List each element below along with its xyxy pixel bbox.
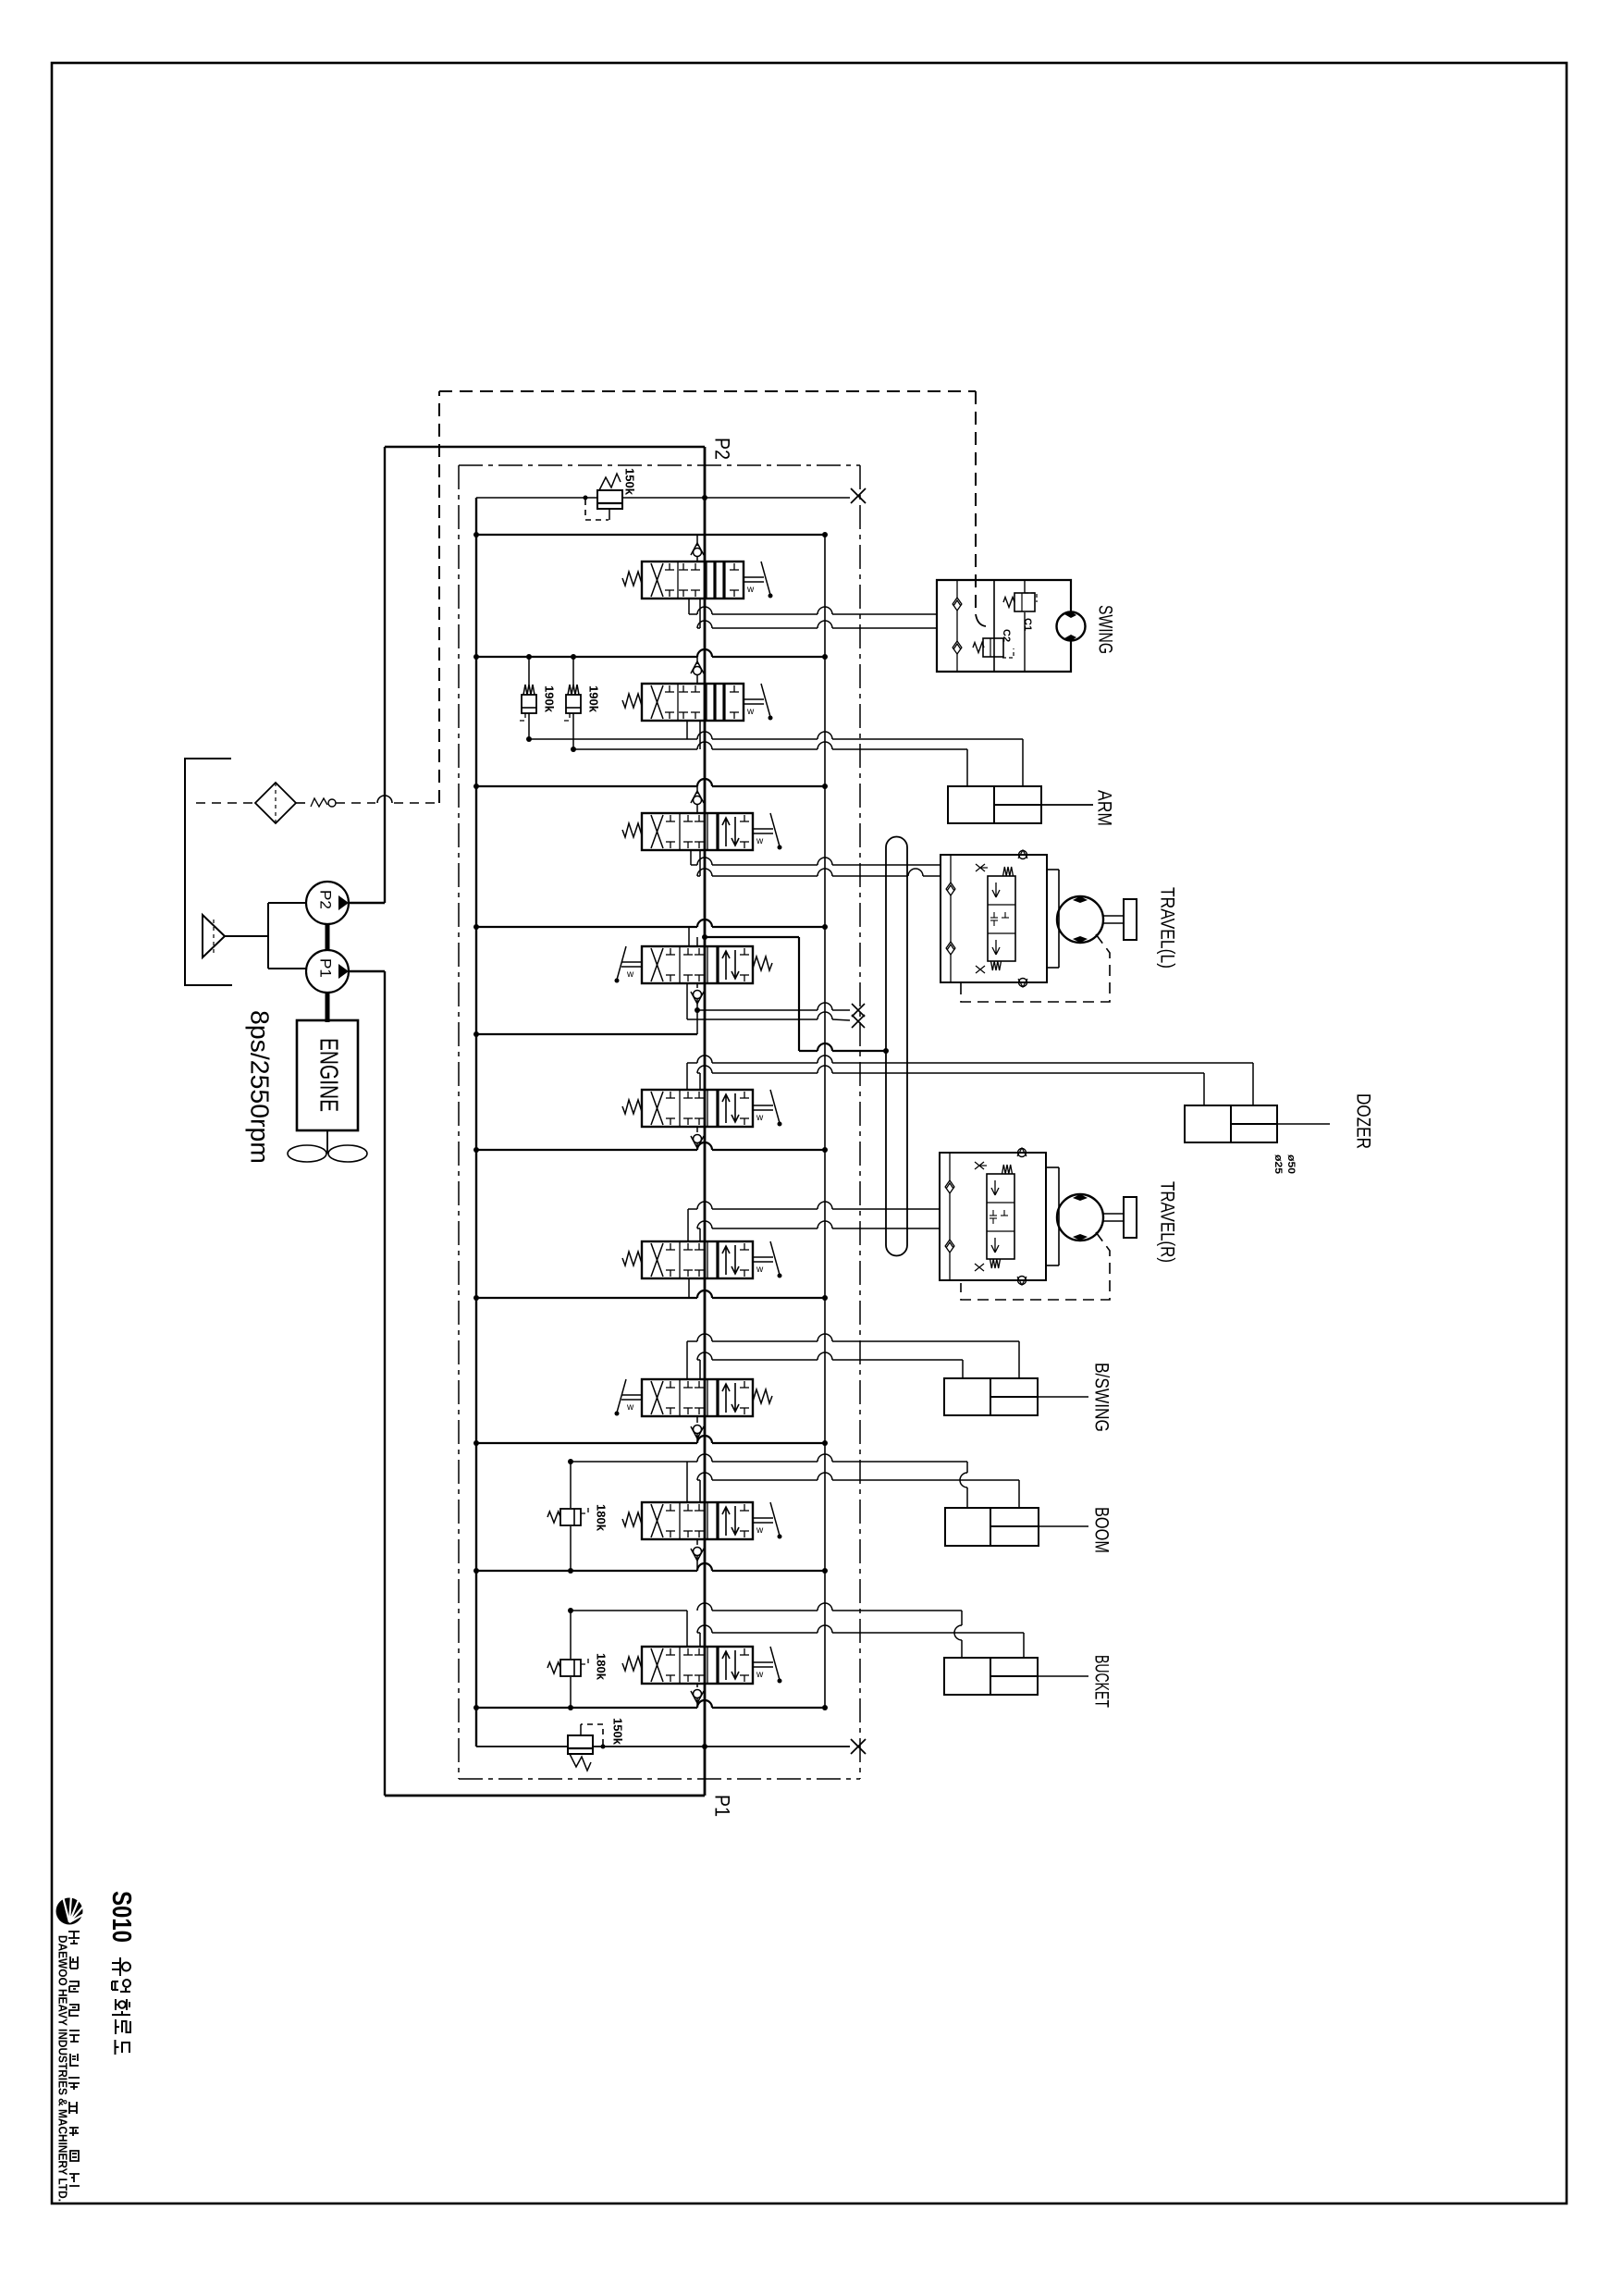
- spool valve V2 arm section: [622, 684, 773, 721]
- svg-text:TRAVEL(R): TRAVEL(R): [1157, 1181, 1178, 1263]
- wire valve8 work port A to boom cylinder: [571, 1454, 967, 1502]
- boom swing cylinder: [944, 1378, 1088, 1415]
- bypass check with spring on drain line: [311, 798, 336, 807]
- spool valve V1 swing section: [622, 562, 773, 599]
- wire valve7 work port B to bswing cylinder: [697, 1352, 963, 1379]
- wire feeder line valve 5: [473, 1142, 828, 1153]
- pump drive shaft: [326, 924, 330, 950]
- svg-text:SWING: SWING: [1095, 605, 1116, 654]
- tank enclosure bracket: [185, 759, 232, 985]
- svg-text:180k: 180k: [595, 1504, 609, 1532]
- travel right drain dashed: [961, 1232, 1110, 1300]
- engine fan shaft: [326, 1130, 328, 1154]
- wire valve1 work port B to swing motor: [697, 599, 937, 628]
- check valve below valve 4: [691, 983, 704, 1010]
- check valve below valve 5: [691, 1127, 704, 1150]
- dozer cylinder: [1185, 1105, 1330, 1142]
- svg-text:BUCKET: BUCKET: [1091, 1655, 1113, 1708]
- plugged port X lower relief line: [851, 1739, 866, 1754]
- svg-text:P2: P2: [711, 438, 734, 460]
- svg-text:P1: P1: [317, 958, 335, 978]
- port relief 190k A valve2: [517, 654, 536, 742]
- swing motor unit housing: [937, 580, 1071, 614]
- port relief 180k boom: [547, 1459, 588, 1574]
- plugged port X valve4 A: [852, 1004, 865, 1017]
- plugged port X valve4 B: [852, 1015, 865, 1028]
- wire suction line to pumps: [225, 903, 306, 969]
- svg-text:DAEWOO HEAVY INDUSTRIES & MACH: DAEWOO HEAVY INDUSTRIES & MACHINERY LTD.: [56, 1935, 70, 2202]
- pilot dashed entry hook into swing unit: [976, 614, 986, 626]
- bucket cylinder: [944, 1658, 1088, 1695]
- wire feeder line valve 4: [473, 920, 828, 930]
- valve bank boundary chain line top edge: [459, 464, 860, 466]
- wire valve8 work port B to boom cylinder: [697, 1473, 1019, 1508]
- wire valve6 work port A to travel-right unit: [688, 1202, 940, 1241]
- svg-text:ø50: ø50: [1285, 1154, 1297, 1174]
- return filter: [255, 783, 296, 823]
- spool valve V5 dozer section: [622, 1090, 782, 1127]
- check valve inlet valve 1: [691, 535, 704, 562]
- wire valve3 work port B to travel-left unit: [697, 850, 941, 876]
- suction strainer funnel: [203, 915, 225, 957]
- wire P2 branch to straight travel loop: [702, 934, 889, 1054]
- swing relief C2: [973, 638, 1014, 658]
- spool valve V8 boom section: [622, 1502, 782, 1539]
- svg-text:190k: 190k: [587, 685, 601, 713]
- travel left drain dashed: [961, 934, 1110, 1002]
- engine shaft: [326, 993, 330, 1022]
- wire feeder line valve 1: [473, 532, 828, 537]
- wire valve6 inlet stub: [688, 1278, 690, 1298]
- label bore rod size: [1273, 1154, 1297, 1174]
- svg-text:P1: P1: [711, 1795, 734, 1817]
- spool valve V3 travel-left section: [622, 813, 782, 850]
- wire valve9 work port A to bucket cylinder: [571, 1603, 962, 1658]
- svg-text:DOZER: DOZER: [1353, 1093, 1374, 1149]
- wire auxiliary feed below valve4: [473, 1007, 700, 1037]
- wire valve2 work port B to arm cylinder: [529, 721, 967, 786]
- pump P2: [306, 882, 349, 924]
- arm cylinder: [948, 786, 1093, 823]
- travel left track symbol: [1103, 899, 1137, 940]
- spool valve V4 straight-travel section: [615, 946, 773, 983]
- wire feeder line valve 3: [473, 779, 828, 789]
- wire P2 supply top header: [385, 446, 705, 448]
- svg-text:150k: 150k: [611, 1718, 625, 1746]
- svg-text:P2: P2: [317, 890, 335, 909]
- pilot line dashed box right edge to swing unit: [975, 391, 977, 614]
- travel right motor: [1046, 1167, 1103, 1265]
- wire valve4 work port B plugged: [687, 983, 850, 1020]
- wire valve8 work port A drop to boom cylinder: [966, 1487, 968, 1508]
- label korean title yuap-hoerodo: [112, 1957, 130, 2055]
- svg-text:B/SWING: B/SWING: [1091, 1363, 1113, 1432]
- svg-text:TRAVEL(L): TRAVEL(L): [1157, 887, 1178, 969]
- svg-text:ARM: ARM: [1094, 790, 1115, 826]
- travel left brake valve unit: [941, 855, 1047, 982]
- wire feeder line valve 8: [473, 1563, 828, 1574]
- wire P1 pump outlet drop line: [349, 971, 385, 1796]
- svg-text:ENGINE: ENGINE: [315, 1038, 344, 1112]
- svg-text:ø25: ø25: [1273, 1154, 1284, 1174]
- wire P2 pump outlet riser: [349, 447, 385, 903]
- wire valve5 work port A to dozer cylinder: [687, 1055, 1253, 1105]
- port relief 190k B valve2: [561, 654, 581, 752]
- wire right feed rail: [824, 535, 826, 1708]
- check valve below valve 7: [691, 1417, 704, 1443]
- wire feeder line valve 9: [473, 1700, 828, 1710]
- svg-text:BOOM: BOOM: [1091, 1507, 1113, 1553]
- swing motor: [1057, 611, 1086, 641]
- pilot line dashed box top edge: [439, 390, 976, 392]
- valve bank boundary chain line right edge: [859, 465, 861, 1779]
- wire main center gallery P2/P1: [704, 447, 707, 1796]
- svg-text:8ps/2550rpm: 8ps/2550rpm: [246, 1010, 275, 1164]
- wire valve4 port stub to branch: [696, 937, 698, 946]
- travel right brake valve unit: [940, 1153, 1046, 1280]
- swing unit anticavitation check upper: [953, 580, 962, 641]
- wire valve4 work port A plugged: [697, 1003, 850, 1010]
- travel left motor: [1047, 870, 1103, 968]
- svg-text:C1: C1: [1022, 618, 1033, 631]
- wire valve6 work port B to travel-right unit: [697, 1221, 940, 1241]
- wire valve4 inlet stub: [688, 927, 690, 946]
- svg-text:180k: 180k: [595, 1653, 609, 1681]
- check valve below valve 9: [691, 1684, 704, 1708]
- engine cooling fan: [288, 1145, 367, 1162]
- swing unit inner gallery line: [993, 580, 995, 672]
- company name korean characters: [68, 1932, 80, 2186]
- boom cylinder: [945, 1508, 1088, 1546]
- spool valve V6 travel-right section: [622, 1241, 782, 1278]
- spool valve V7 boom-swing section: [615, 1379, 773, 1416]
- wire P1 supply bottom header: [385, 1795, 705, 1797]
- wire valve9 work port B to bucket cylinder: [697, 1625, 1024, 1658]
- wire straight-travel loop hairpin: [886, 837, 907, 1256]
- wire feeder line valve 7: [473, 1436, 828, 1446]
- valve bank boundary chain line left edge: [458, 465, 460, 1779]
- engine block ENGINE: [297, 1020, 358, 1130]
- check valve below valve 8: [691, 1539, 704, 1571]
- svg-text:150k: 150k: [623, 468, 637, 496]
- wire dashed drain line tank to filter: [196, 802, 255, 804]
- valve bank boundary chain line bottom edge: [459, 1778, 860, 1780]
- pilot line dashed box left edge: [438, 391, 440, 803]
- spool valve V9 bucket section: [622, 1647, 782, 1684]
- wire feeder line valve 6: [473, 1290, 828, 1301]
- wire dashed drain line filter to pilot box: [296, 796, 439, 803]
- pump P1: [306, 950, 349, 993]
- plugged port X upper relief line: [851, 488, 866, 503]
- wire feeder line valve 2: [473, 649, 828, 660]
- daewoo logo: [56, 1897, 84, 1925]
- svg-text:190k: 190k: [543, 685, 557, 713]
- svg-text:C2: C2: [1001, 629, 1012, 642]
- svg-text:S010: S010: [106, 1891, 136, 1943]
- wire valve1 work port A to swing motor: [689, 599, 937, 614]
- main relief valve 150k P2 side: [476, 474, 850, 520]
- main relief valve 150k P1 side: [476, 1724, 850, 1771]
- wire valve7 work port A to bswing cylinder: [687, 1334, 1019, 1379]
- travel right track symbol: [1103, 1197, 1137, 1238]
- check valve inlet valve 2: [691, 657, 704, 684]
- wire valve2 work port A to arm cylinder: [687, 721, 1023, 786]
- wire valve3 work port A to travel-left unit: [691, 850, 941, 865]
- port relief 180k bucket: [547, 1608, 588, 1710]
- wire left feed rail: [475, 498, 477, 1747]
- check valve inlet valve 3: [691, 786, 704, 813]
- swing relief C1: [1003, 580, 1037, 672]
- wire valve5 work port B to dozer cylinder: [697, 1066, 1204, 1105]
- swing unit anticavitation check lower: [953, 641, 962, 672]
